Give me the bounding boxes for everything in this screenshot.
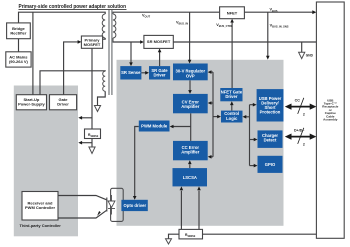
svg-text:GND: GND bbox=[306, 54, 314, 58]
svg-text:Amplifier: Amplifier bbox=[181, 104, 200, 109]
svg-text:OVP: OVP bbox=[186, 73, 195, 78]
svg-text:LSCSA: LSCSA bbox=[183, 175, 197, 180]
svg-text:Power-Supply: Power-Supply bbox=[18, 102, 45, 107]
svg-text:2: 2 bbox=[303, 112, 305, 116]
svg-text:Amplifier: Amplifier bbox=[181, 150, 200, 155]
svg-text:Logic: Logic bbox=[226, 116, 238, 121]
svg-text:Opto driver: Opto driver bbox=[124, 203, 147, 208]
svg-text:SR Sense: SR Sense bbox=[121, 70, 141, 75]
svg-text:(90-264 V): (90-264 V) bbox=[9, 59, 29, 64]
svg-text:Driver: Driver bbox=[57, 102, 69, 107]
svg-text:SR MOSFET: SR MOSFET bbox=[147, 39, 171, 44]
svg-text:Detect: Detect bbox=[264, 138, 277, 143]
svg-text:Assembly: Assembly bbox=[323, 118, 338, 122]
svg-text:PWM Controller: PWM Controller bbox=[25, 205, 55, 210]
svg-text:2: 2 bbox=[303, 142, 305, 146]
svg-text:GPIO: GPIO bbox=[265, 162, 276, 167]
svg-text:Third-party Controller: Third-party Controller bbox=[20, 223, 62, 228]
svg-text:D+/D−: D+/D− bbox=[294, 129, 304, 133]
svg-text:Rectifier: Rectifier bbox=[10, 30, 26, 35]
svg-text:NFET: NFET bbox=[227, 10, 238, 15]
svg-text:Driver: Driver bbox=[153, 73, 165, 78]
svg-text:Primary-side controlled power: Primary-side controlled power adapter so… bbox=[19, 4, 127, 10]
svg-text:Driver: Driver bbox=[225, 94, 237, 99]
svg-text:PWM Module: PWM Module bbox=[141, 123, 168, 128]
svg-text:MOSFET: MOSFET bbox=[84, 42, 101, 47]
svg-text:Protection: Protection bbox=[260, 110, 281, 115]
svg-text:CC: CC bbox=[295, 99, 301, 103]
